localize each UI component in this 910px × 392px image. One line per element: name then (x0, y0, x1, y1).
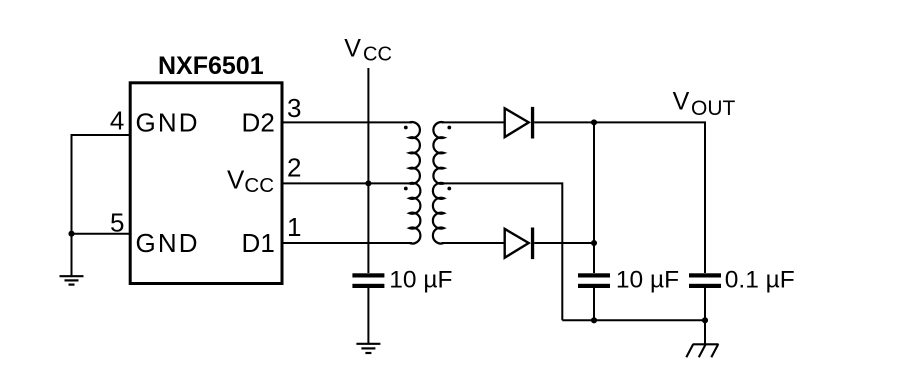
svg-text:NXF6501: NXF6501 (158, 52, 264, 80)
transformer T1 primary winding (410, 122, 421, 244)
wire pin2 VCC line to transformer center tap (282, 182, 413, 184)
ground (IC GND) (60, 276, 84, 284)
wire VCC vertical (367, 68, 369, 273)
svg-text:1: 1 (287, 212, 301, 242)
wire diode top to VOUT corner and down to C3 (534, 122, 705, 273)
wire C1 to ground (367, 288, 369, 344)
wire pin4 to left rail (72, 135, 131, 234)
svg-text:GND: GND (136, 228, 200, 258)
wire center tap to ground rail (442, 183, 563, 320)
svg-text:V: V (227, 165, 245, 195)
node VCC / center tap junction (365, 180, 371, 186)
wire rail to chassis ground (704, 320, 706, 344)
diode top cathode bar (531, 107, 534, 139)
capacitor C3 0.1uF (689, 273, 721, 277)
svg-text:10 µF: 10 µF (616, 266, 679, 293)
wire vertical branch to C2 (593, 122, 595, 273)
svg-text:V: V (673, 87, 690, 115)
svg-text:4: 4 (110, 106, 124, 136)
wire pin3 to transformer (282, 121, 413, 123)
wire C3 to rail (704, 288, 706, 320)
chassis ground (686, 344, 718, 357)
node junction pin4/pin5 (68, 231, 74, 237)
svg-text:D2: D2 (242, 108, 275, 138)
node diode bottom junction (591, 240, 597, 246)
node diode top junction (591, 119, 597, 125)
svg-text:2: 2 (287, 153, 301, 183)
wire C2 to rail (593, 288, 595, 320)
node C2 rail junction (591, 317, 597, 323)
polarity dot secondary top (447, 126, 451, 130)
wire junction to ground (71, 234, 73, 277)
diode bottom (505, 229, 529, 258)
svg-text:3: 3 (287, 93, 301, 123)
svg-text:CC: CC (363, 44, 392, 66)
svg-text:GND: GND (136, 108, 200, 138)
svg-text:0.1 µF: 0.1 µF (725, 266, 795, 293)
capacitor C2 10uF (578, 273, 610, 277)
wire secondary bottom to diode (442, 242, 505, 244)
polarity dot primary bottom (404, 187, 408, 191)
svg-text:10 µF: 10 µF (389, 266, 452, 293)
svg-text:V: V (344, 35, 361, 63)
polarity dot primary top (404, 126, 408, 130)
transformer T1 secondary winding (433, 122, 444, 244)
svg-text:D1: D1 (242, 228, 275, 258)
diode bottom cathode bar (531, 228, 534, 260)
wire bottom rail (562, 319, 705, 321)
wire secondary top to diode D1t (442, 121, 505, 123)
capacitor C1 10uF wire below VCC (352, 273, 384, 277)
polarity dot secondary bottom (447, 187, 451, 191)
svg-text:CC: CC (244, 174, 274, 197)
diode top (505, 108, 529, 137)
node C3 rail junction (702, 317, 708, 323)
IC NXF6501 box (130, 83, 282, 284)
ground (C1) (356, 344, 380, 353)
wire diode bottom to junction (534, 242, 594, 244)
wire pin1 to transformer (282, 242, 413, 244)
wire pin5 (72, 233, 131, 235)
svg-text:OUT: OUT (691, 97, 736, 120)
